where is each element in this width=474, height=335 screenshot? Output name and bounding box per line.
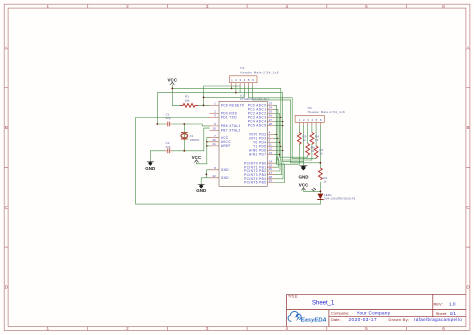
svg-text:Header Male-2.54_1x6: Header Male-2.54_1x6 [240,70,278,74]
svg-text:1k: 1k [315,138,319,142]
svg-text:VCC: VCC [192,155,202,160]
svg-text:rafaelbragacampello: rafaelbragacampello [414,317,462,322]
svg-text:16MHz: 16MHz [190,138,200,142]
svg-text:PC6 RESET#: PC6 RESET# [221,104,245,108]
svg-text:GND: GND [221,168,230,172]
svg-text:VCC: VCC [299,183,309,188]
svg-text:1k: 1k [311,149,315,153]
svg-text:10: 10 [212,127,216,131]
svg-text:5: 5 [365,4,368,9]
svg-text:2: 2 [126,4,129,9]
svg-text:1: 1 [47,326,50,331]
svg-text:2: 2 [126,326,129,331]
svg-text:ATMEGA328P-PU: ATMEGA328P-PU [240,97,269,101]
svg-text:B: B [466,125,469,130]
svg-text:GND: GND [221,176,230,180]
svg-text:Drawn By:: Drawn By: [389,317,410,322]
svg-text:B: B [5,125,8,130]
svg-text:3: 3 [206,326,209,331]
svg-text:AIN1 PD7: AIN1 PD7 [249,153,266,157]
svg-text:PB6 XTAL1: PB6 XTAL1 [221,124,241,128]
svg-text:22p: 22p [166,116,171,120]
svg-text:1k: 1k [303,138,307,142]
svg-text:Sheet:: Sheet: [436,311,448,316]
svg-text:GND: GND [299,175,310,180]
svg-text:Company:: Company: [331,310,349,315]
svg-text:PD1 TXD: PD1 TXD [221,116,238,120]
svg-text:22p: 22p [166,145,171,149]
svg-text:22: 22 [212,174,216,178]
svg-text:4: 4 [286,4,289,9]
svg-text:19: 19 [269,179,273,183]
svg-text:1.0: 1.0 [449,301,456,306]
svg-text:Date:: Date: [331,317,341,322]
svg-text:6: 6 [442,4,445,9]
svg-text:Header Male-2.54_1x6: Header Male-2.54_1x6 [308,110,345,114]
svg-text:1k: 1k [323,180,327,184]
svg-text:1: 1 [47,4,50,9]
svg-text:PB7 XTAL2: PB7 XTAL2 [221,129,241,133]
svg-text:Your Company: Your Company [357,311,391,316]
svg-text:10k: 10k [185,98,190,102]
svg-text:21: 21 [212,142,216,146]
svg-text:TITLE:: TITLE: [288,295,298,299]
svg-text:13: 13 [269,151,273,155]
svg-text:GND: GND [196,188,207,193]
svg-text:2020-03-17: 2020-03-17 [349,317,378,322]
svg-text:PCINT5 PB5: PCINT5 PB5 [244,181,266,185]
svg-text:VCC: VCC [168,77,178,82]
svg-text:AREF: AREF [221,144,231,148]
svg-text:3: 3 [206,4,209,9]
svg-text:1k: 1k [319,151,323,155]
svg-text:5: 5 [365,326,368,331]
svg-text:GND: GND [145,166,156,171]
svg-text:Sheet_1: Sheet_1 [312,301,335,307]
svg-text:REV:: REV: [434,301,443,306]
svg-text:EasyEDA: EasyEDA [301,317,327,323]
svg-text:4: 4 [286,326,289,331]
svg-text:6: 6 [442,326,445,331]
svg-text:PC5 ADC5: PC5 ADC5 [248,124,267,128]
svg-text:28: 28 [269,122,273,126]
svg-text:1/1: 1/1 [450,311,457,316]
svg-text:204-10SURD/S530-A3: 204-10SURD/S530-A3 [324,196,356,200]
